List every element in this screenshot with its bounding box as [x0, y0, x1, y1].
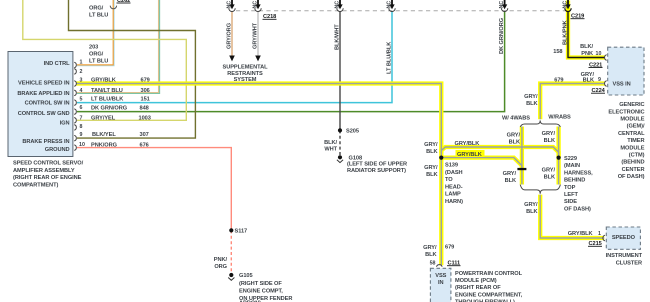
label GRY/BLK on RABS branch — [542, 131, 556, 144]
svg-text:SIDE: SIDE — [564, 199, 577, 205]
svg-text:PNK/ORG: PNK/ORG — [91, 142, 118, 148]
svg-text:RESTRAINTS: RESTRAINTS — [227, 71, 263, 77]
svg-text:NC: NC — [335, 1, 341, 9]
caption GEM/CTM — [608, 102, 645, 180]
svg-text:LT BLU: LT BLU — [89, 13, 108, 19]
wire GRY/BLK 679 (GEM pin 9 to 4WABS/RABS split) — [540, 84, 604, 120]
wire GRY/BLK W/RABS branch through S229 — [556, 127, 560, 185]
svg-text:GRY/: GRY/ — [424, 165, 438, 171]
svg-text:LT BLU/BLK: LT BLU/BLK — [387, 41, 393, 74]
svg-text:GRY/: GRY/ — [524, 202, 538, 208]
label GRY/BLK left of GEM drop wire — [524, 94, 538, 107]
svg-text:OF DASH): OF DASH) — [618, 174, 645, 180]
arrowheads at top connectors — [229, 4, 570, 9]
svg-text:IN: IN — [438, 280, 444, 286]
caption instrument cluster — [606, 253, 643, 266]
svg-text:BLK/: BLK/ — [580, 44, 593, 50]
svg-text:TIMER: TIMER — [627, 138, 644, 144]
svg-text:GRY/: GRY/ — [503, 171, 517, 177]
svg-text:MODULE (PCM): MODULE (PCM) — [455, 278, 497, 284]
svg-text:ENGINE COMPARTMENT,: ENGINE COMPARTMENT, — [455, 292, 523, 298]
connector sockets on dashed line — [229, 8, 508, 11]
pin sockets on servo box edge (pins 1-10) — [74, 62, 76, 150]
svg-text:848: 848 — [140, 106, 149, 112]
svg-text:BLK/PNK: BLK/PNK — [563, 19, 569, 45]
svg-text:GRY/: GRY/ — [542, 131, 556, 137]
svg-text:PNK: PNK — [581, 51, 594, 57]
svg-text:GRY/BLK: GRY/BLK — [568, 231, 594, 237]
speed control servo/amplifier assembly box — [8, 52, 73, 157]
GEM pin 9 bracket — [605, 81, 607, 87]
svg-text:58: 58 — [430, 261, 436, 267]
SRS arrowhead GRY/WHT — [255, 56, 261, 62]
svg-text:3: 3 — [80, 77, 83, 83]
svg-text:GRY/WHT: GRY/WHT — [253, 22, 259, 49]
svg-text:DK GRN/ORG: DK GRN/ORG — [91, 106, 128, 112]
label GRY/BLK right of tick — [542, 168, 556, 181]
svg-text:ORG/: ORG/ — [89, 5, 104, 11]
svg-text:VSS IN: VSS IN — [613, 82, 631, 88]
svg-text:(LEFT SIDE OF UPPER: (LEFT SIDE OF UPPER — [347, 162, 407, 168]
black core of BLK/PNK wire — [568, 12, 605, 58]
inline connector tick on 4WABS branch — [517, 168, 526, 170]
svg-text:LAMP: LAMP — [445, 192, 461, 198]
wire PNK/ORG dashed (S117 to G105) — [230, 230, 232, 273]
svg-text:S139: S139 — [445, 163, 458, 169]
wire BLK/PNK 158 highlighted (C219 to GEM pin 10) — [568, 1, 605, 58]
svg-text:BEHIND: BEHIND — [564, 178, 585, 184]
caption G105 — [239, 273, 292, 302]
split brace below W/4WABS W/RABS labels — [520, 121, 560, 127]
svg-text:W/ 4WABS: W/ 4WABS — [502, 115, 530, 121]
gray core lines of GRY/BLK wires — [77, 84, 605, 266]
svg-text:(RIGHT SIDE OF: (RIGHT SIDE OF — [239, 281, 282, 287]
circuit numbers at servo box — [139, 77, 151, 148]
connector label C111 — [447, 261, 461, 267]
connector label C224 — [591, 88, 606, 94]
svg-text:BLK/YEL: BLK/YEL — [92, 132, 116, 138]
wire PNK/ORG 676 (pin 10 to S117) — [77, 148, 231, 231]
svg-text:LT BLU/BLK: LT BLU/BLK — [91, 96, 124, 102]
caption PCM — [455, 271, 523, 302]
svg-text:DK GRN/ORG: DK GRN/ORG — [499, 17, 505, 54]
svg-text:ENGINE COMPT,: ENGINE COMPT, — [239, 289, 283, 295]
svg-text:BLK: BLK — [526, 101, 538, 107]
svg-text:BLK: BLK — [425, 252, 437, 258]
wire GRY/BLK branch (S139 upper to S229) — [441, 147, 558, 158]
svg-text:(RIGHT REAR OF ENGINE: (RIGHT REAR OF ENGINE — [13, 175, 82, 181]
svg-text:(BEHIND: (BEHIND — [621, 160, 644, 166]
svg-text:307: 307 — [140, 132, 149, 138]
labels GRY/BLK below S139 — [424, 165, 438, 178]
svg-text:(MAIN: (MAIN — [564, 163, 580, 169]
svg-text:S205: S205 — [346, 129, 359, 135]
svg-text:TO: TO — [445, 177, 453, 183]
wire BLK/WHT (top connector to S205) — [339, 12, 341, 131]
svg-text:INSTRUMENT: INSTRUMENT — [606, 253, 643, 259]
svg-text:GENERIC: GENERIC — [619, 102, 644, 108]
wire GRY/BLK (merge to SPEEDO pin 1) — [540, 195, 604, 238]
svg-text:(RIGHT REAR OF: (RIGHT REAR OF — [455, 285, 501, 291]
svg-text:BLK/: BLK/ — [324, 140, 337, 146]
svg-text:BLK: BLK — [526, 209, 538, 215]
svg-text:W/RABS: W/RABS — [548, 115, 571, 121]
svg-text:MODULE: MODULE — [620, 117, 644, 123]
svg-text:TAN/LT BLU: TAN/LT BLU — [91, 88, 123, 94]
splice S117 — [229, 228, 233, 232]
connector socket on ORG/LT BLU wire — [110, 6, 116, 9]
label BLK/WHT at S205 — [324, 140, 338, 153]
svg-text:158: 158 — [553, 49, 562, 55]
svg-text:NC: NC — [227, 1, 233, 9]
svg-text:GRY/: GRY/ — [423, 245, 437, 251]
svg-text:BLK: BLK — [583, 78, 595, 84]
svg-text:MODULE: MODULE — [620, 145, 644, 151]
svg-text:NC: NC — [387, 1, 393, 9]
svg-text:GROUND: GROUND — [45, 147, 70, 153]
servo box pin numbers — [79, 59, 85, 148]
svg-text:SPEED CONTROL SERVO/: SPEED CONTROL SERVO/ — [13, 161, 84, 167]
svg-text:CONTROL SW GND: CONTROL SW GND — [18, 111, 70, 117]
svg-text:GRY/YEL: GRY/YEL — [91, 116, 116, 122]
svg-text:6: 6 — [80, 105, 83, 111]
svg-text:GRY/: GRY/ — [507, 133, 521, 139]
svg-text:1: 1 — [598, 231, 601, 237]
servo box pin labels — [17, 61, 70, 153]
svg-text:BLK: BLK — [544, 175, 556, 181]
wire TAN/LT BLU 306 (pin 4 up to top edge) — [77, 0, 160, 94]
servo box caption — [13, 161, 84, 189]
svg-text:HARN): HARN) — [445, 199, 463, 205]
label PNK/ORG at G105 — [214, 257, 228, 270]
svg-text:1003: 1003 — [139, 116, 151, 122]
SRS arrowhead GRY/ORG — [229, 56, 235, 62]
svg-text:(GEM)/: (GEM)/ — [627, 124, 645, 130]
svg-text:GRY/BLK: GRY/BLK — [455, 141, 481, 147]
svg-text:BLK/WHT: BLK/WHT — [335, 24, 341, 50]
svg-text:BRAKE PRESS IN: BRAKE PRESS IN — [22, 139, 69, 145]
label GRY/BLK at PCM — [423, 245, 437, 258]
wire GRY/BLK branch (S139 lower to left split wire) — [441, 158, 522, 169]
svg-text:679: 679 — [445, 245, 454, 251]
label GRY/BLK on lower branch (boxed) — [456, 150, 485, 158]
wire BLK/WHT dashed (S205 to G108) — [339, 130, 341, 155]
svg-text:IGN: IGN — [60, 120, 70, 126]
GEM module box — [608, 47, 644, 95]
svg-text:LEFT: LEFT — [564, 192, 578, 198]
wire GRY/WHT (C218 to SRS) — [257, 12, 259, 56]
svg-text:9: 9 — [80, 132, 83, 138]
wire ORG/LT BLU 203 (pin 1 to top connector) — [77, 0, 114, 66]
SPEEDO pin 1 bracket — [603, 235, 605, 241]
svg-text:GRY/: GRY/ — [424, 142, 438, 148]
svg-text:TOP: TOP — [564, 185, 576, 191]
label GRY/BLK above speedo corner — [524, 202, 538, 215]
svg-text:IND CTRL: IND CTRL — [44, 61, 70, 67]
svg-text:SPEEDO: SPEEDO — [612, 235, 636, 241]
svg-text:VSS: VSS — [435, 273, 446, 279]
svg-text:(CTM): (CTM) — [629, 153, 645, 159]
svg-text:ELECTRONIC: ELECTRONIC — [608, 109, 644, 115]
svg-text:GRY/: GRY/ — [542, 168, 556, 174]
svg-text:BLK: BLK — [505, 178, 517, 184]
svg-text:BLK: BLK — [426, 149, 438, 155]
svg-text:GRY/ORG: GRY/ORG — [227, 22, 233, 49]
svg-text:GRY/BLK: GRY/BLK — [91, 77, 117, 83]
svg-text:VEHICLE SPEED IN: VEHICLE SPEED IN — [18, 81, 69, 87]
svg-text:SYSTEM: SYSTEM — [234, 77, 257, 83]
svg-text:2: 2 — [80, 69, 83, 75]
svg-text:676: 676 — [140, 142, 149, 148]
caption S229 — [564, 156, 593, 213]
svg-text:CLUSTER: CLUSTER — [616, 260, 642, 266]
ground G105 — [228, 273, 234, 280]
svg-text:HEAD-: HEAD- — [445, 184, 463, 190]
svg-text:COMPARTMENT): COMPARTMENT) — [13, 183, 58, 189]
ground G108 — [337, 155, 343, 162]
label ORG/LT BLU near top connector — [89, 5, 108, 18]
svg-text:S229: S229 — [564, 156, 577, 162]
SPEEDO box (instrument cluster) — [606, 227, 640, 249]
labels GRY/BLK above S139 — [424, 142, 438, 155]
wire DK GRN/ORG 848 (pin 6 up to top connector) — [77, 12, 505, 112]
svg-text:679: 679 — [554, 78, 563, 84]
connector label C2 top (cut off) — [117, 0, 131, 4]
label GRY/BLK on 4WABS branch — [507, 133, 521, 146]
wire GRY/ORG (C218 to SRS) — [231, 12, 233, 56]
svg-text:306: 306 — [141, 88, 150, 94]
svg-text:203: 203 — [89, 45, 98, 51]
splice S139 — [439, 156, 443, 160]
splice S229 — [557, 156, 561, 160]
svg-text:S117: S117 — [235, 229, 248, 235]
svg-text:CONTROL SW IN: CONTROL SW IN — [25, 101, 70, 107]
wire GRY/YEL 1003 (pin 7 loop to top edge) — [23, 0, 187, 120]
svg-text:10: 10 — [596, 51, 602, 57]
svg-text:ORG/: ORG/ — [89, 52, 104, 58]
svg-text:CENTRAL: CENTRAL — [618, 131, 645, 137]
connector socket C219 (bold) — [565, 8, 571, 11]
svg-text:NC: NC — [499, 1, 505, 9]
svg-text:679: 679 — [141, 77, 150, 83]
svg-text:NC: NC — [253, 1, 259, 9]
connector label C221 — [589, 62, 603, 68]
svg-text:POWERTRAIN CONTROL: POWERTRAIN CONTROL — [455, 271, 523, 277]
label GRY/BLK pin 9 — [581, 72, 595, 84]
connector label C219 — [571, 14, 585, 20]
svg-text:AMPLIFIER ASSEMBLY: AMPLIFIER ASSEMBLY — [13, 168, 75, 174]
svg-text:8: 8 — [80, 124, 83, 130]
svg-text:BLK: BLK — [426, 172, 438, 178]
PCM VSS IN box — [430, 268, 451, 302]
svg-text:4: 4 — [80, 88, 83, 94]
svg-text:151: 151 — [141, 96, 150, 102]
svg-text:7: 7 — [80, 115, 83, 121]
PCM pin 58 bracket — [437, 265, 443, 267]
caption G108 — [347, 155, 407, 174]
SRS caption — [223, 64, 269, 83]
splice S205 — [338, 128, 342, 132]
svg-text:BLK: BLK — [509, 140, 521, 146]
wire BLK/YEL 307 (pin 9 loop to top edge) — [69, 0, 196, 138]
wire name labels at servo box — [89, 45, 128, 149]
svg-text:9: 9 — [598, 77, 601, 83]
top wire stubs with arrows — [232, 0, 568, 5]
svg-text:OF DASH): OF DASH) — [564, 206, 591, 212]
wire GRY/BLK 679 highlighted (pin 3 to S139 to PCM pin 58) — [77, 84, 442, 266]
svg-text:10: 10 — [79, 142, 85, 148]
svg-text:G105: G105 — [239, 273, 253, 279]
svg-text:PNK/: PNK/ — [214, 257, 228, 263]
label GRY/BLK below tick on 4WABS branch — [503, 171, 517, 184]
svg-text:RADIATOR SUPPORT): RADIATOR SUPPORT) — [347, 168, 406, 174]
GEM pin 10 bracket — [605, 55, 607, 61]
svg-text:NC: NC — [563, 1, 569, 9]
svg-text:HARNESS,: HARNESS, — [564, 170, 593, 176]
svg-text:(DASH: (DASH — [445, 170, 463, 176]
connector label C218 — [263, 14, 277, 20]
connector C218/C219 dashed line — [236, 10, 565, 12]
svg-text:BRAKE APPLIED IN: BRAKE APPLIED IN — [17, 91, 69, 97]
svg-text:G108: G108 — [349, 155, 363, 161]
label VSS IN (PCM) — [435, 273, 446, 286]
svg-text:WHT: WHT — [324, 147, 337, 153]
wire GRY/BLK W/ 4WABS branch — [520, 127, 524, 185]
svg-text:5: 5 — [80, 96, 83, 102]
svg-text:GRY/BLK: GRY/BLK — [457, 152, 483, 158]
label BLK/PNK pin 10 — [580, 44, 594, 57]
svg-text:BLK: BLK — [544, 138, 556, 144]
svg-text:LT BLU: LT BLU — [89, 59, 108, 65]
svg-text:1: 1 — [80, 59, 83, 65]
wire LT BLU/BLK 151 (pin 5 up to top connector) — [77, 12, 392, 103]
svg-text:CENTER: CENTER — [622, 167, 645, 173]
caption S139 — [445, 163, 463, 205]
svg-text:ORG: ORG — [214, 264, 227, 270]
svg-text:GRY/: GRY/ — [524, 94, 538, 100]
merge brace above speedo wire — [520, 185, 560, 194]
svg-text:SUPPLEMENTAL: SUPPLEMENTAL — [223, 64, 269, 70]
connector label C215 — [588, 241, 602, 247]
